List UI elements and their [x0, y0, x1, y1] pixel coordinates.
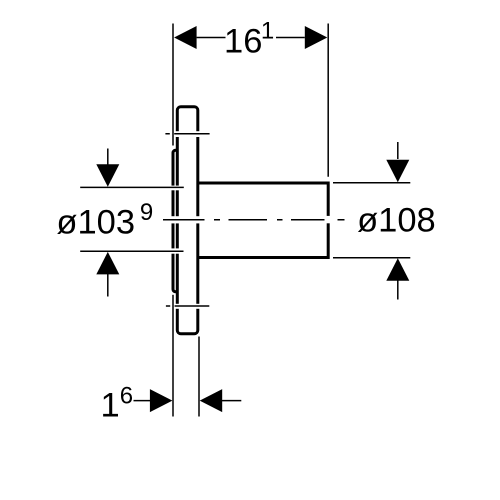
dimension text diameter 103 — [56, 204, 135, 242]
dimension 108: upper arrow stem — [397, 142, 399, 159]
svg-text:16: 16 — [224, 22, 262, 60]
dimension 1.6: left extension line — [172, 295, 174, 417]
gap erasers: centerline crossing gap (pipe end) — [325, 216, 333, 223]
svg-text:ø108: ø108 — [357, 201, 436, 239]
dimension superscript 9 — [140, 199, 153, 226]
dimension 103.9: lower arrow stem — [107, 274, 109, 297]
dimension text 1 — [101, 387, 120, 425]
dimension 1.6: left arrowhead (points right) — [150, 389, 173, 412]
dimension 1.6: right extension line — [198, 337, 200, 417]
gap erasers: lower dim-line crossing gap — [168, 248, 182, 253]
dimension 103.9: lower arrowhead (up) — [96, 252, 119, 275]
dimension line 16 sup 1: right extension line — [327, 24, 329, 177]
dimension line 16 sup 1: left extension line — [172, 24, 174, 146]
dimension 108: upper arrowhead (down) — [386, 160, 409, 183]
svg-text:6: 6 — [120, 382, 133, 409]
dimension 1.6: right arrowhead (points left) — [200, 389, 223, 412]
dimension line 16 sup 1: left arrowhead — [174, 26, 197, 49]
gap erasers: top break gap — [168, 131, 203, 137]
seal lip (thin plate on left face of flange) — [173, 150, 178, 291]
dimension 108: upper dimension line — [333, 182, 410, 184]
dimension 1.6: right tail line — [222, 400, 242, 402]
dimension text 16 — [224, 22, 262, 60]
dimension 103.9: lower dimension line — [80, 250, 183, 252]
dimension 108: lower arrow stem — [397, 280, 399, 300]
dimension 103.9: upper arrowhead (down) — [96, 164, 119, 187]
flange body (rounded rectangle) — [177, 107, 198, 334]
top break line across flange — [165, 133, 209, 135]
svg-text:1: 1 — [261, 18, 274, 45]
gap erasers: upper dim-line crossing gap — [168, 186, 182, 191]
dimension 103.9: upper arrow stem — [107, 149, 109, 166]
pipe socket outline — [198, 183, 328, 258]
gap erasers: centerline crossing gap (flange) — [168, 216, 205, 223]
dimension line 16 sup 1: dimension line segments — [197, 37, 305, 39]
svg-text:ø103: ø103 — [56, 204, 135, 242]
centerline (dash-dot axis) — [163, 219, 345, 221]
dimension text diameter 108 — [357, 201, 436, 239]
svg-text:1: 1 — [101, 387, 120, 425]
dimension superscript 1 — [261, 18, 274, 45]
dimension superscript 6 — [120, 382, 133, 409]
gap erasers: bottom break gap — [168, 304, 203, 309]
svg-text:9: 9 — [140, 199, 153, 226]
bottom break line across flange — [166, 305, 209, 307]
dimension 103.9: upper dimension line — [80, 186, 184, 188]
dimension 108: lower dimension line — [333, 257, 410, 259]
dimension 1.6: connector line from text — [134, 400, 151, 402]
dimension line 16 sup 1: right arrowhead — [305, 26, 328, 49]
dimension 108: lower arrowhead (up) — [386, 258, 409, 281]
